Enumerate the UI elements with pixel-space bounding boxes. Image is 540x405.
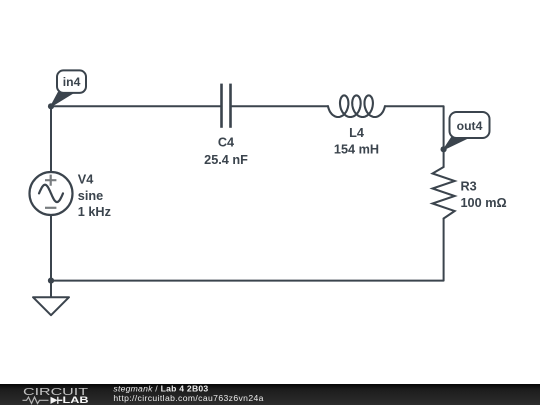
- svg-text:25.4 nF: 25.4 nF: [204, 153, 248, 167]
- V4 minus sign: [45, 207, 56, 209]
- inductor L4 coil: [328, 95, 385, 117]
- ground symbol: [33, 297, 69, 315]
- wire left vertical: in4 node down to V4 top terminal: [50, 106, 52, 172]
- svg-text:R3: R3: [461, 179, 477, 193]
- svg-text:in4: in4: [63, 75, 81, 89]
- footer watermark bar: [0, 384, 540, 405]
- wire C4 right plate to L4: [231, 105, 329, 107]
- svg-text:100 mΩ: 100 mΩ: [461, 196, 507, 210]
- voltage source V4 circle: [30, 172, 73, 215]
- wire R3 bottom, down and across bottom to left vertical: [51, 219, 444, 281]
- junction dot node out4: [441, 146, 447, 152]
- svg-text:154 mH: 154 mH: [334, 142, 379, 156]
- svg-text:L4: L4: [349, 126, 364, 140]
- svg-text:V4: V4: [78, 172, 94, 186]
- wire node out4 down to R3 top: [443, 149, 445, 167]
- V4 plus sign: [45, 175, 56, 208]
- svg-text:LAB: LAB: [63, 395, 89, 405]
- wire V4 bottom terminal down to ground: [50, 215, 52, 297]
- junction dot node in4: [48, 103, 54, 109]
- wire top-left: node in4 to C4 left plate: [51, 105, 222, 107]
- footer logo diode: [51, 397, 58, 404]
- svg-text:1 kHz: 1 kHz: [78, 205, 111, 219]
- node flag in4 box: [57, 70, 86, 93]
- node flag out4 box: [450, 112, 490, 138]
- resistor R3 zigzag: [433, 167, 455, 219]
- svg-text:C4: C4: [218, 136, 234, 150]
- capacitor C4 plates: [222, 84, 231, 128]
- node flag out4 tail: [444, 138, 468, 150]
- svg-text:sine: sine: [78, 189, 103, 203]
- V4 sine wave symbol: [39, 185, 63, 202]
- svg-text:out4: out4: [457, 119, 483, 133]
- wire L4 to top-right corner, down to node out4: [385, 106, 444, 149]
- svg-text:http://circuitlab.com/cau763z6: http://circuitlab.com/cau763z6vn24a: [113, 393, 263, 403]
- junction dot bottom-left ground node: [48, 278, 54, 284]
- node flag in4 tail: [51, 92, 73, 106]
- footer logo resistor squiggle: [23, 397, 49, 403]
